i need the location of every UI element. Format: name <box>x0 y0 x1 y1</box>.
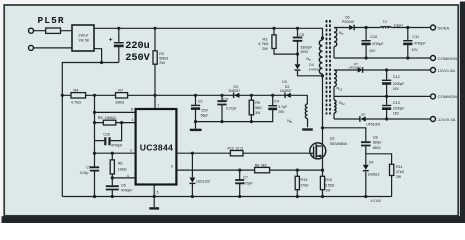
svg-text:0.27µF: 0.27µF <box>226 106 237 110</box>
svg-text:4.7kΩ: 4.7kΩ <box>71 100 81 104</box>
svg-text:C10: C10 <box>370 35 377 39</box>
svg-text:C5: C5 <box>299 33 304 37</box>
svg-text:27kΩ: 27kΩ <box>300 183 308 187</box>
svg-text:56kΩ: 56kΩ <box>159 57 168 61</box>
svg-text:4700µF: 4700µF <box>372 42 384 46</box>
svg-text:15V: 15V <box>393 111 400 115</box>
svg-text:C13: C13 <box>393 101 400 105</box>
svg-text:470pF: 470pF <box>243 182 253 186</box>
svg-text:C6: C6 <box>121 183 126 187</box>
svg-text:3300pF: 3300pF <box>300 45 312 49</box>
svg-text:4.7kΩ: 4.7kΩ <box>258 42 268 46</box>
svg-text:R8 5k6: R8 5k6 <box>255 164 267 168</box>
svg-text:-12V/0.3A: -12V/0.3A <box>437 117 456 122</box>
svg-text:2200µF: 2200µF <box>393 106 405 110</box>
svg-text:PS2045: PS2045 <box>342 20 354 24</box>
svg-text:7: 7 <box>157 104 159 108</box>
svg-text:UF51002: UF51002 <box>366 122 380 126</box>
svg-text:R2: R2 <box>159 52 164 56</box>
svg-text:4700µF: 4700µF <box>414 42 426 46</box>
svg-text:2W: 2W <box>262 47 268 51</box>
svg-text:R13: R13 <box>300 178 307 182</box>
svg-text:3W: 3W <box>255 111 261 115</box>
svg-text:2W: 2W <box>159 61 165 65</box>
svg-text:1: 1 <box>131 118 133 122</box>
svg-text:UF51002: UF51002 <box>349 66 362 70</box>
svg-text:1N3612: 1N3612 <box>368 173 380 177</box>
svg-text:1W: 1W <box>325 188 331 192</box>
svg-text:1N4937: 1N4937 <box>228 89 240 93</box>
svg-text:D4: D4 <box>309 63 313 67</box>
svg-text:L1: L1 <box>383 20 387 24</box>
svg-text:1N4937: 1N4937 <box>280 89 292 93</box>
svg-text:C12: C12 <box>393 75 400 79</box>
svg-text:R7: R7 <box>118 89 123 93</box>
svg-text:2200µF: 2200µF <box>393 82 405 86</box>
svg-text:16V: 16V <box>393 87 400 91</box>
svg-text:10kΩ: 10kΩ <box>118 167 127 171</box>
svg-text:5-0165: 5-0165 <box>371 199 381 203</box>
svg-text:C8: C8 <box>373 135 378 139</box>
svg-text:220u: 220u <box>125 41 149 52</box>
svg-text:SSS4N80A: SSS4N80A <box>330 142 348 146</box>
svg-text:10V: 10V <box>369 49 376 53</box>
svg-text:R6: R6 <box>118 162 123 166</box>
svg-text:UC3844: UC3844 <box>140 143 173 153</box>
svg-text:4700pF: 4700pF <box>111 143 123 147</box>
svg-text:680V: 680V <box>373 146 382 150</box>
svg-text:R4: R4 <box>74 89 79 93</box>
svg-text:8: 8 <box>131 108 133 112</box>
svg-text:C2: C2 <box>198 99 203 103</box>
svg-text:680p/: 680p/ <box>373 141 382 145</box>
svg-text:4.7µF: 4.7µF <box>278 105 287 109</box>
svg-text:25V: 25V <box>278 110 285 114</box>
svg-text:C4: C4 <box>274 99 279 103</box>
svg-text:2: 2 <box>130 148 132 152</box>
svg-text:0.55Ω: 0.55Ω <box>325 183 335 187</box>
svg-text:1SD1120: 1SD1120 <box>196 180 210 184</box>
svg-text:0.01µ: 0.01µ <box>80 171 89 175</box>
svg-text:D8: D8 <box>361 113 365 117</box>
svg-text:4700pF: 4700pF <box>121 189 132 193</box>
svg-text:R5 150kΩ: R5 150kΩ <box>98 116 116 120</box>
svg-text:R9: R9 <box>255 101 260 105</box>
svg-text:1(3): 1(3) <box>282 80 288 84</box>
svg-text:D5: D5 <box>369 161 373 165</box>
svg-text:1N4937: 1N4937 <box>309 67 320 71</box>
svg-text:27kΩ: 27kΩ <box>396 170 404 174</box>
svg-text:2W10: 2W10 <box>79 34 89 38</box>
svg-text:+: + <box>109 36 113 43</box>
svg-text:R3: R3 <box>263 37 268 41</box>
svg-text:5: 5 <box>157 190 159 194</box>
svg-text:3.3µH: 3.3µH <box>394 24 404 28</box>
svg-text:R11: R11 <box>396 165 403 169</box>
svg-text:12V/0.3A: 12V/0.3A <box>438 68 456 73</box>
svg-text:200V: 200V <box>300 50 309 54</box>
svg-text:COMMON: COMMON <box>438 94 457 99</box>
svg-text:250V: 250V <box>125 53 150 64</box>
svg-text:PL5R: PL5R <box>38 15 65 26</box>
svg-text:56Ω: 56Ω <box>255 106 262 110</box>
svg-text:C7: C7 <box>243 176 248 180</box>
svg-text:YM 58: YM 58 <box>78 39 89 43</box>
svg-text:25V: 25V <box>201 109 208 113</box>
svg-text:C11: C11 <box>412 35 419 39</box>
svg-text:Q1: Q1 <box>330 136 335 140</box>
svg-text:39kΩ: 39kΩ <box>115 100 124 104</box>
svg-text:3: 3 <box>171 164 173 168</box>
svg-text:R12 22 Ω: R12 22 Ω <box>228 147 244 151</box>
svg-text:2W: 2W <box>396 175 402 179</box>
svg-text:10V: 10V <box>412 48 419 52</box>
svg-text:5V/6A: 5V/6A <box>438 25 450 30</box>
svg-text:C9: C9 <box>86 166 90 170</box>
svg-text:4: 4 <box>127 174 129 178</box>
svg-text:C16: C16 <box>103 133 110 137</box>
svg-text:COMMON: COMMON <box>438 56 457 61</box>
svg-text:C3: C3 <box>223 97 228 101</box>
svg-text:56µF: 56µF <box>201 114 209 118</box>
svg-text:6: 6 <box>171 148 173 152</box>
svg-text:R10: R10 <box>325 178 332 182</box>
